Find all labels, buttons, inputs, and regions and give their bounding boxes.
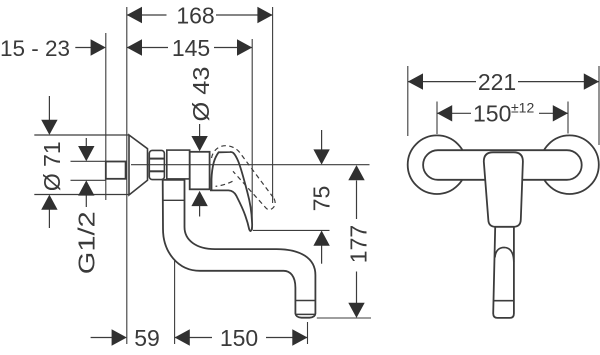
handle alternate position (dashed) [212, 146, 276, 210]
dimension 75 [321, 130, 323, 264]
aerator line (front view) [494, 300, 514, 302]
escutcheon cone (side view) [129, 135, 148, 195]
svg-text:59: 59 [134, 325, 160, 351]
spout (side view) [163, 180, 316, 318]
svg-text:G1/2: G1/2 [74, 211, 100, 274]
G1/2 nipple [106, 162, 126, 179]
spout dome arch (front view) [495, 247, 514, 262]
wire extension line y=318 spout bottom [317, 317, 371, 319]
wire extension line x=174.6 spout drop axis [174, 233, 176, 344]
escutcheon circle right (front view) [540, 135, 599, 194]
aerator cap bottom edge [296, 313, 316, 315]
union nut [149, 150, 164, 179]
aerator cap line [295, 300, 315, 302]
svg-text:Ø 71: Ø 71 [39, 141, 65, 191]
svg-text:15 - 23: 15 - 23 [0, 36, 70, 61]
body bar (front view) [423, 150, 582, 180]
dimension 150±12 [437, 112, 568, 114]
dimension 145 [127, 47, 252, 49]
dimension 168 [127, 14, 273, 16]
handle (solid) [210, 152, 252, 231]
svg-text:75: 75 [309, 186, 335, 212]
wire extension line wall plane x=126.8 [126, 7, 128, 344]
front view: 221 extension lines [408, 66, 599, 145]
dimension 150 [175, 337, 308, 339]
svg-text:Ø 43: Ø 43 [188, 67, 214, 122]
wire extension line x=252.2 (145 right) [251, 39, 253, 230]
handle (front view) [484, 152, 523, 227]
dimension Ø43 [199, 124, 201, 217]
wire extension line x=105.8 upper [105, 33, 107, 161]
svg-text:221: 221 [478, 69, 516, 95]
dimension 59 [91, 337, 112, 339]
svg-text:150: 150 [220, 325, 258, 351]
spout tube (front view) [493, 227, 514, 318]
wire extension line x=307.5 spout axis bottom [307, 322, 309, 344]
valve body [190, 152, 210, 190]
svg-text:177: 177 [345, 225, 371, 263]
svg-text:150: 150 [473, 101, 511, 127]
svg-text:145: 145 [172, 35, 210, 61]
dimension G1/2 [71, 138, 106, 207]
dimension 177 [356, 181, 358, 304]
wire extension line y=230.4 handle tail [253, 229, 330, 231]
wire centerline y=164.7 [131, 164, 370, 166]
body cylinder [167, 150, 190, 179]
svg-text:±12: ±12 [511, 100, 534, 116]
dimension 221 [408, 81, 599, 83]
escutcheon circle left (front view) [408, 135, 467, 194]
dimension Ø71 [34, 96, 129, 228]
dimension 15 - 23 [75, 47, 92, 49]
svg-text:168: 168 [176, 2, 214, 28]
wire extension line x=105.8 lower [105, 179, 107, 200]
wire extension line x=272.6 (168 right) [272, 7, 274, 203]
spout joint line [163, 199, 185, 201]
